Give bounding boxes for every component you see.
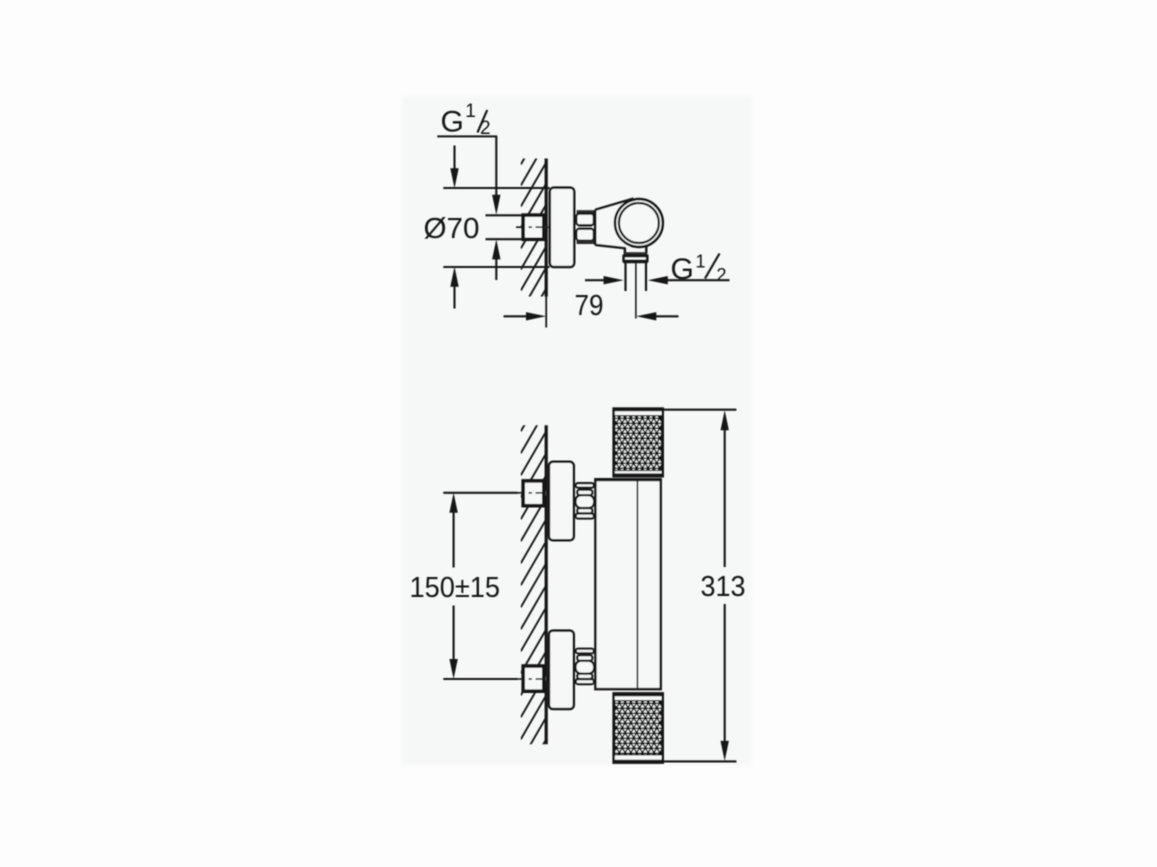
bottom knurled handle bbox=[584, 693, 690, 762]
ext line 313 bottom bbox=[663, 760, 737, 762]
svg-text:79: 79 bbox=[575, 290, 604, 322]
dim ext line O70 bottom bbox=[443, 266, 549, 268]
hex nut (top view) bbox=[576, 210, 594, 244]
svg-text:2: 2 bbox=[717, 265, 727, 285]
O70 down arrow bbox=[450, 146, 458, 189]
valve body (top view) bbox=[595, 199, 648, 248]
wall hatch (bottom view) bbox=[521, 387, 546, 805]
outlet neck bbox=[624, 247, 626, 252]
bottom hex nut (bottom view) bbox=[576, 649, 595, 684]
G 1/2 underline bbox=[437, 135, 497, 137]
dim ext line O70 top bbox=[443, 187, 549, 189]
ext line 150 top bbox=[443, 492, 517, 494]
svg-text:G: G bbox=[441, 106, 464, 139]
dim 79 left arrow bbox=[504, 312, 547, 320]
ext line 313 top bbox=[663, 409, 737, 411]
svg-text:1: 1 bbox=[696, 252, 706, 272]
G 1/2 leader up arrow bbox=[492, 239, 500, 280]
bottom escutcheon (bottom view) bbox=[549, 631, 574, 709]
top escutcheon (bottom view) bbox=[549, 462, 574, 541]
union nut square bbox=[523, 215, 544, 239]
svg-text:150±15: 150±15 bbox=[410, 572, 501, 604]
union centerline (dash-dot) bbox=[516, 226, 549, 228]
bottom union nut square bbox=[523, 666, 544, 691]
inlet nipple bbox=[486, 214, 524, 216]
G 1/2 leader with down arrow bbox=[492, 136, 500, 214]
outlet dark ring bbox=[624, 252, 648, 256]
hose stub sides bbox=[624, 262, 626, 291]
svg-text:313: 313 bbox=[701, 571, 746, 603]
dim 79 right arrow bbox=[636, 312, 678, 320]
top hex nut (bottom view) bbox=[576, 483, 595, 518]
wall extension line below bbox=[545, 297, 547, 328]
hose centerline extension bbox=[635, 263, 637, 318]
dim line 150 with arrows bbox=[449, 493, 457, 679]
bottom union centerline bbox=[516, 678, 550, 680]
top knurled handle bbox=[583, 409, 690, 477]
wall line (top view) bbox=[545, 159, 548, 297]
top union nut square bbox=[523, 481, 544, 506]
union chamfer cone bbox=[544, 217, 547, 238]
top union chamfer bbox=[544, 482, 547, 504]
svg-text:G: G bbox=[671, 253, 694, 286]
main body (bottom view) bbox=[595, 479, 660, 689]
dim G1/2 right: line + arrows bbox=[585, 276, 624, 284]
body face line bbox=[636, 479, 638, 689]
handle inner circle bbox=[619, 203, 659, 243]
bottom union chamfer bbox=[544, 667, 547, 690]
G 1/2 label right bbox=[671, 252, 727, 287]
O70 up arrow bbox=[450, 267, 458, 309]
handle outer circle (top view) bbox=[615, 199, 663, 247]
dim line 313 with arrows bbox=[721, 410, 729, 761]
ext line 150 bottom bbox=[443, 678, 517, 680]
svg-text:Ø70: Ø70 bbox=[424, 213, 480, 245]
wall line (bottom view) bbox=[545, 425, 548, 744]
wall hatch (top view) bbox=[521, 121, 546, 354]
escutcheon (top view) bbox=[550, 188, 574, 267]
G 1/2 label top-left bbox=[441, 101, 491, 139]
top union centerline bbox=[516, 492, 550, 494]
image box background bbox=[402, 96, 752, 765]
svg-text:1: 1 bbox=[465, 101, 476, 122]
outlet nut bbox=[624, 256, 648, 261]
